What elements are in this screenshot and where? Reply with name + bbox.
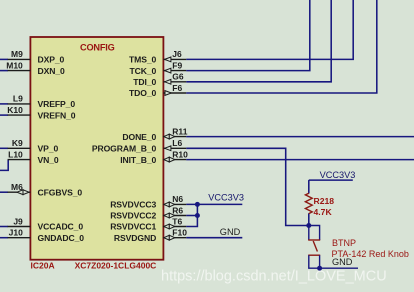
svg-text:GND: GND (220, 227, 241, 237)
svg-text:G6: G6 (172, 72, 184, 82)
svg-text:RSVDVCC3: RSVDVCC3 (110, 200, 156, 210)
svg-text:VREFN_0: VREFN_0 (38, 110, 76, 120)
svg-text:L6: L6 (172, 138, 182, 148)
svg-text:J6: J6 (172, 49, 182, 59)
svg-text:L10: L10 (8, 149, 23, 159)
svg-text:RSVDVCC1: RSVDVCC1 (110, 222, 156, 232)
svg-text:TDI_0: TDI_0 (133, 77, 156, 87)
svg-text:T6: T6 (172, 216, 182, 226)
svg-text:M10: M10 (6, 60, 23, 70)
svg-text:F6: F6 (172, 83, 182, 93)
svg-text:M6: M6 (11, 182, 23, 192)
svg-text:CONFIG: CONFIG (80, 42, 115, 52)
svg-text:R6: R6 (172, 205, 183, 215)
svg-text:VN_0: VN_0 (38, 155, 59, 165)
svg-text:IC20A: IC20A (31, 261, 55, 271)
svg-text:F9: F9 (172, 60, 182, 70)
svg-text:DONE_0: DONE_0 (122, 132, 156, 142)
svg-text:M9: M9 (11, 49, 23, 59)
svg-text:4.7K: 4.7K (314, 207, 333, 217)
svg-text:DXN_0: DXN_0 (38, 66, 66, 76)
svg-text:DXP_0: DXP_0 (38, 55, 65, 65)
svg-text:TMS_0: TMS_0 (129, 55, 157, 65)
svg-text:VP_0: VP_0 (38, 144, 59, 154)
svg-text:F10: F10 (172, 228, 187, 238)
svg-text:L9: L9 (13, 94, 23, 104)
svg-text:BTNP: BTNP (332, 238, 356, 248)
svg-text:GND: GND (332, 257, 353, 267)
svg-text:J10: J10 (9, 228, 23, 238)
svg-text:R218: R218 (314, 196, 335, 206)
svg-text:K9: K9 (12, 138, 23, 148)
svg-text:VCC3V3: VCC3V3 (208, 193, 244, 203)
svg-text:K10: K10 (7, 105, 23, 115)
svg-text:R11: R11 (172, 126, 187, 136)
svg-text:R10: R10 (172, 149, 188, 159)
svg-text:https://blog.csdn.net/I_LOVE_M: https://blog.csdn.net/I_LOVE_MCU (161, 268, 387, 284)
svg-text:VCCADC_0: VCCADC_0 (38, 222, 84, 232)
svg-text:PROGRAM_B_0: PROGRAM_B_0 (92, 144, 157, 154)
svg-text:INIT_B_0: INIT_B_0 (120, 155, 156, 165)
svg-text:XC7Z020-1CLG400C: XC7Z020-1CLG400C (75, 261, 157, 271)
svg-text:N6: N6 (172, 194, 183, 204)
svg-text:J9: J9 (13, 216, 23, 226)
svg-text:VCC3V3: VCC3V3 (320, 170, 356, 180)
svg-text:RSVDGND: RSVDGND (114, 233, 156, 243)
svg-text:CFGBVS_0: CFGBVS_0 (38, 187, 83, 197)
svg-text:RSVDVCC2: RSVDVCC2 (110, 211, 156, 221)
svg-text:GNDADC_0: GNDADC_0 (38, 233, 85, 243)
svg-text:TCK_0: TCK_0 (129, 66, 156, 76)
svg-text:VREFP_0: VREFP_0 (38, 99, 76, 109)
svg-text:TDO_0: TDO_0 (129, 88, 157, 98)
